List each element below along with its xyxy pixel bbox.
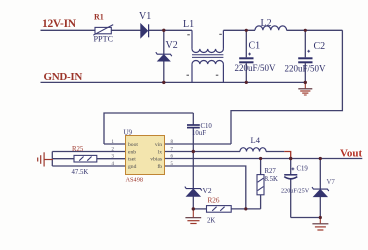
wire left common vertical at port — [51, 152, 53, 167]
wire right-side supply drop — [231, 30, 342, 144]
svg-text:220uF/25V: 220uF/25V — [281, 187, 310, 194]
capacitor C19 — [284, 175, 297, 179]
svg-text:C1: C1 — [249, 41, 261, 52]
U9 pin names right — [150, 142, 162, 170]
wire C10 top lead — [192, 113, 194, 125]
wire C2 vertical top — [304, 30, 306, 57]
wire pin3 row right of R25 — [97, 158, 126, 160]
wire C19 bottom lead — [290, 179, 292, 218]
wire V7 bottom lead — [319, 197, 321, 218]
svg-text:enb: enb — [128, 150, 136, 156]
svg-text:R27: R27 — [265, 168, 277, 175]
wire output bottom rail — [291, 217, 321, 219]
wire R26 row — [193, 208, 206, 210]
ground under V7 — [312, 218, 328, 231]
ground under V2 — [185, 209, 201, 224]
L1 pin marks — [187, 34, 222, 75]
svg-text:V2: V2 — [203, 186, 212, 195]
svg-text:vbias: vbias — [150, 157, 162, 163]
svg-text:V7: V7 — [327, 179, 336, 186]
svg-text:2K: 2K — [207, 217, 215, 224]
red step wire to output rail — [284, 152, 290, 159]
svg-text:10uF: 10uF — [192, 130, 206, 137]
wire pin1 boot stub — [104, 143, 126, 145]
zener diode V2 (freewheeling, bottom) — [185, 187, 202, 197]
svg-text:V2: V2 — [166, 40, 178, 51]
svg-text:47.5K: 47.5K — [72, 169, 89, 176]
U9 pin numbers — [112, 140, 174, 167]
wire 12V-IN rail — [41, 29, 96, 31]
C1 plus mark — [248, 53, 251, 56]
svg-text:220uF/50V: 220uF/50V — [285, 64, 327, 74]
wire pin4 gnd row — [52, 165, 125, 167]
svg-text:R26: R26 — [208, 196, 220, 204]
svg-text:tset: tset — [128, 157, 136, 163]
wire C1 vertical top — [245, 30, 247, 57]
svg-text:L1: L1 — [183, 19, 194, 30]
wire pin7 lx row to L4 — [165, 151, 241, 153]
wire V7 top lead — [319, 159, 321, 190]
resistor R26 — [207, 206, 232, 213]
svg-text:R25: R25 — [72, 146, 84, 153]
wire GND-IN rail — [41, 81, 306, 83]
svg-text:220uF/50V: 220uF/50V — [235, 63, 277, 73]
svg-text:R1: R1 — [94, 13, 104, 22]
wire C19 top lead — [290, 159, 292, 175]
wire V2 anode to R26 row — [192, 196, 194, 209]
wire L1 top-right to L2 — [223, 29, 255, 31]
wire L2 to top-right corner — [287, 29, 343, 31]
svg-text:GND-IN: GND-IN — [44, 71, 83, 83]
svg-text:AS498: AS498 — [126, 176, 144, 183]
wire pin2 enb row — [52, 151, 125, 153]
wire pin8 vin row — [165, 143, 232, 145]
svg-text:fb: fb — [157, 163, 162, 170]
wire C2 vertical bottom — [304, 63, 306, 82]
wire pin5 fb row — [165, 166, 246, 209]
inductor L2 — [255, 26, 287, 30]
svg-text:C19: C19 — [297, 166, 309, 173]
wire L4 to red step — [266, 151, 284, 153]
svg-text:12V-IN: 12V-IN — [42, 18, 77, 30]
wire R27 top lead — [260, 159, 262, 175]
capacitor C1 — [239, 58, 253, 62]
diode V1 — [141, 24, 149, 37]
svg-text:gnd: gnd — [128, 164, 137, 170]
svg-text:boot: boot — [128, 142, 138, 148]
wire R1 to V1 — [111, 29, 141, 31]
C19 plus mark — [292, 168, 295, 171]
svg-text:L4: L4 — [251, 135, 261, 145]
svg-text:V1: V1 — [139, 11, 151, 22]
svg-text:L2: L2 — [261, 18, 272, 29]
inductor L1 common-mode choke — [192, 30, 223, 82]
port symbol (left, red) — [38, 152, 53, 166]
capacitor C2 — [298, 58, 312, 62]
zener diode V2 (input TVS) — [156, 52, 172, 61]
C2 plus mark — [307, 50, 310, 53]
wire C10 bottom lead down to diode V2 — [192, 128, 194, 188]
svg-text:U9: U9 — [124, 128, 133, 136]
svg-text:lx: lx — [158, 150, 163, 156]
inductor L4 — [240, 148, 266, 152]
resistor R27 — [257, 175, 264, 195]
svg-text:C2: C2 — [314, 41, 326, 52]
wire pin3 row left of R25 — [52, 158, 74, 160]
svg-text:PPTC: PPTC — [94, 35, 114, 44]
svg-text:vin: vin — [155, 142, 162, 148]
zener diode V7 — [312, 187, 329, 197]
wire R27 bottom lead — [260, 195, 262, 209]
ground under C2 — [298, 82, 312, 95]
wire pin6 vbias rail to Vout — [165, 158, 363, 160]
svg-text:8.5K: 8.5K — [265, 176, 278, 183]
IC U9 box — [126, 136, 165, 175]
svg-text:Vout: Vout — [340, 148, 363, 160]
wire boot loop — [104, 113, 193, 144]
U9 pin names left — [128, 142, 138, 170]
capacitor C10 — [187, 125, 200, 128]
resistor R1 (PPTC) — [93, 25, 113, 36]
wire V2 branch vertical — [163, 30, 165, 54]
wire C1 vertical bottom — [245, 63, 247, 82]
resistor R25 — [74, 155, 97, 162]
wire V1 to L1 top-left — [149, 29, 192, 31]
